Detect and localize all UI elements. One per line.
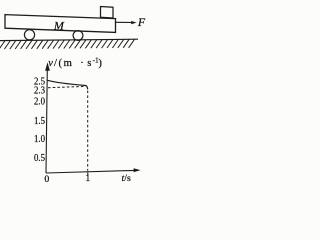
ground line	[0, 39, 138, 40]
svg-text:2.0: 2.0	[34, 95, 45, 107]
t axis (horizontal)	[46, 170, 135, 173]
ground hatching	[0, 39, 135, 49]
v-t line solid	[47, 80, 88, 89]
svg-text:F: F	[137, 15, 146, 29]
svg-text:1.0: 1.0	[34, 133, 45, 145]
svg-text:1: 1	[85, 173, 90, 184]
wheel right	[73, 31, 83, 41]
svg-text:0.5: 0.5	[34, 152, 45, 164]
svg-text:v/(m·s-1): v/(m·s-1)	[48, 57, 102, 69]
svg-text:t/s: t/s	[122, 173, 131, 184]
dashed horizontal v=2.3	[48, 86, 86, 87]
svg-text:M: M	[53, 19, 65, 33]
v axis (vertical)	[46, 69, 47, 173]
truck cab	[101, 7, 114, 19]
svg-text:1.5: 1.5	[34, 115, 45, 127]
force arrow F	[116, 21, 132, 23]
wheel left	[24, 30, 34, 40]
t=1 tick	[87, 172, 89, 176]
dashed vertical t=1	[87, 91, 89, 171]
truck body M	[5, 15, 116, 33]
svg-text:0: 0	[44, 174, 49, 185]
